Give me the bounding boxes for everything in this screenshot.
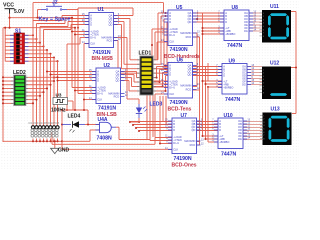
ic U5 74190N: [168, 10, 193, 46]
svg-text:QD: QD: [115, 79, 119, 83]
svg-text:D: D: [97, 79, 99, 83]
svg-text:GND: GND: [58, 148, 70, 154]
svg-text:D: D: [173, 128, 175, 132]
ic U6 74190N: [168, 63, 193, 99]
svg-text:74190N: 74190N: [170, 100, 188, 106]
wire LED2 left bus: [3, 76, 14, 78]
svg-text:D: D: [90, 23, 92, 27]
wire S1 right staircase: [25, 34, 34, 36]
svg-text:OG: OG: [238, 137, 242, 141]
svg-text:100Hz: 100Hz: [51, 107, 66, 113]
wire gate out: [116, 126, 119, 128]
svg-text:~BI/RBO: ~BI/RBO: [225, 32, 235, 36]
svg-text:D/~U: D/~U: [173, 141, 179, 145]
wire U5 input dots: [164, 12, 166, 14]
svg-text:RCO: RCO: [186, 35, 192, 39]
wire clock route: [68, 100, 74, 102]
svg-text:7447N: 7447N: [227, 43, 243, 49]
svg-text:U3: U3: [56, 93, 62, 98]
svg-text:U10: U10: [224, 113, 233, 119]
ic U2 74191N: [96, 68, 121, 104]
wire S1 to U1 inputs: [32, 21, 34, 36]
svg-text:S1: S1: [15, 29, 21, 35]
svg-text:U8: U8: [232, 5, 239, 11]
svg-text:MAX/MIN: MAX/MIN: [184, 139, 195, 143]
svg-text:QD: QD: [187, 73, 191, 77]
svg-text:RCO: RCO: [190, 143, 196, 147]
svg-text:J2: J2: [52, 0, 58, 5]
svg-text:BCD-Ones: BCD-Ones: [172, 162, 197, 168]
wire U1 outputs: [114, 15, 134, 17]
power VCC: [5, 8, 15, 10]
grid dots: [0, 0, 299, 169]
wire U6 input dots: [164, 64, 166, 66]
wire S1 left bus: [4, 28, 6, 62]
wire LED1 right mesh: [153, 59, 158, 61]
svg-text:LED1: LED1: [139, 51, 152, 57]
svg-text:R1R2R3R4R5R6R7R8: R1R2R3R4R5R6R7R8: [29, 121, 60, 125]
svg-text:CLK: CLK: [90, 42, 95, 46]
svg-text:D: D: [169, 20, 171, 24]
svg-text:7447N: 7447N: [225, 97, 241, 103]
wire mid bus: [52, 143, 155, 145]
svg-text:U1: U1: [98, 7, 105, 13]
wire LED2 taps: [26, 76, 58, 78]
svg-text:CLK: CLK: [169, 92, 174, 96]
svg-text:BCD-Tens: BCD-Tens: [168, 106, 192, 112]
wire counter-decoder channel: [202, 13, 204, 136]
wire U2 control: [72, 87, 96, 89]
svg-text:D/~U: D/~U: [169, 33, 175, 37]
svg-text:74190N: 74190N: [170, 47, 188, 53]
svg-text:74190N: 74190N: [174, 156, 192, 162]
display U13: [263, 113, 292, 146]
dip switch S1: [14, 33, 25, 64]
ic U7 74190N: [172, 118, 197, 154]
svg-text:~BI/RBO: ~BI/RBO: [223, 86, 233, 90]
ic U8 7447N: [224, 10, 249, 41]
svg-text:LED4: LED4: [68, 114, 81, 120]
wire S1 to U2 inputs: [47, 71, 96, 73]
svg-text:U5: U5: [176, 5, 183, 11]
svg-text:D: D: [225, 20, 227, 24]
svg-text:RCO: RCO: [107, 39, 113, 43]
wire LED3 bundle to U7: [138, 118, 140, 122]
wire counters control mesh: [159, 96, 161, 144]
svg-text:BIN-MSB: BIN-MSB: [92, 56, 114, 62]
wire display common: [291, 11, 296, 13]
svg-text:D: D: [169, 73, 171, 77]
wire gnd stem: [54, 141, 56, 148]
display U12: [262, 67, 291, 100]
svg-text:7408N: 7408N: [97, 135, 113, 141]
svg-text:CLK: CLK: [169, 40, 174, 44]
ic U9 7447N: [222, 64, 247, 95]
ic U10 7447N: [218, 118, 243, 149]
svg-text:RCO: RCO: [114, 95, 120, 99]
ic U1 74191N: [89, 13, 114, 48]
wire ground bus: [32, 139, 34, 142]
svg-text:MAX/MIN: MAX/MIN: [180, 84, 191, 88]
wire U1 rco: [114, 37, 128, 39]
svg-text:OG: OG: [242, 83, 246, 87]
svg-text:U12: U12: [270, 61, 279, 67]
wire VCC rail: [9, 13, 11, 28]
svg-text:U9: U9: [229, 59, 236, 65]
wire decoder outputs: [249, 12, 262, 14]
svg-text:D/~U: D/~U: [169, 86, 175, 90]
svg-text:QD: QD: [187, 20, 191, 24]
svg-text:D/~U: D/~U: [97, 92, 103, 96]
svg-text:U7: U7: [181, 113, 188, 119]
svg-text:U6: U6: [177, 58, 184, 64]
wire U2 outputs: [121, 71, 137, 73]
bargraph LED2: [14, 75, 26, 106]
svg-text:CLK: CLK: [173, 148, 178, 152]
svg-text:QD: QD: [108, 23, 112, 27]
wire U1 control: [71, 18, 73, 88]
svg-text:7447N: 7447N: [221, 151, 237, 157]
ground: [51, 148, 59, 153]
display U11: [262, 10, 291, 43]
svg-text:~BI/RBO: ~BI/RBO: [219, 140, 229, 144]
wire J2 button connections: [38, 9, 42, 11]
svg-text:74191N: 74191N: [98, 106, 116, 112]
svg-text:D: D: [219, 128, 221, 132]
bargraph LED1: [140, 56, 153, 95]
wire u-shape: [61, 125, 63, 150]
svg-text:Key = Space: Key = Space: [39, 17, 71, 23]
svg-text:U2: U2: [104, 63, 111, 69]
svg-text:VCC: VCC: [3, 2, 14, 8]
svg-text:D/~U: D/~U: [90, 36, 96, 40]
svg-text:OG: OG: [244, 29, 248, 33]
svg-text:LED2: LED2: [13, 70, 26, 76]
svg-text:U13: U13: [271, 107, 280, 113]
svg-text:MAX/MIN: MAX/MIN: [180, 31, 191, 35]
wire top trunk: [33, 2, 164, 4]
svg-text:QD: QD: [191, 128, 195, 132]
svg-text:D: D: [223, 74, 225, 78]
svg-text:CLK: CLK: [97, 98, 102, 102]
svg-text:U11: U11: [270, 4, 279, 10]
svg-text:5.0V: 5.0V: [14, 9, 25, 15]
svg-text:RCO: RCO: [186, 88, 192, 92]
svg-text:74191N: 74191N: [93, 50, 111, 56]
svg-text:LED3: LED3: [150, 102, 163, 108]
